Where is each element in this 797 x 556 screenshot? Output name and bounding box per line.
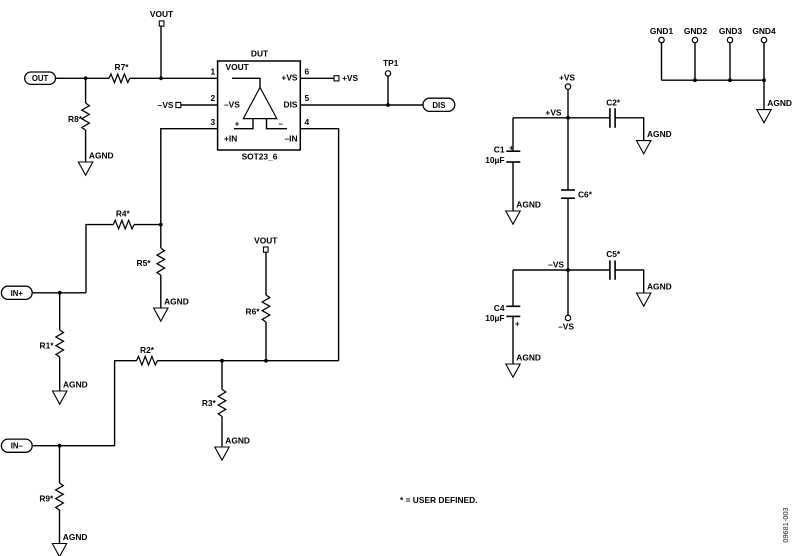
svg-text:6: 6 [304, 66, 309, 76]
op-amp triangle U1 [243, 87, 276, 118]
svg-text:GND4: GND4 [752, 26, 776, 36]
wire C2 to ground corner [615, 118, 644, 141]
svg-text:–: – [278, 119, 283, 128]
node junction +VS rail [566, 116, 570, 120]
svg-text:R9*: R9* [39, 493, 54, 503]
node junction TP1 [386, 103, 390, 107]
terminal GND1 [650, 26, 674, 80]
svg-text:+VS: +VS [281, 72, 297, 82]
svg-text:R4*: R4* [116, 208, 131, 218]
svg-text:10µF: 10µF [485, 313, 504, 323]
terminal -VS pin2 [158, 100, 181, 110]
svg-text:AGND: AGND [647, 129, 672, 139]
connector OUT [25, 72, 56, 84]
svg-text:R6*: R6* [246, 307, 261, 317]
svg-text:VOUT: VOUT [150, 9, 174, 19]
svg-text:4: 4 [304, 117, 309, 127]
ground AGND (C5) [637, 281, 672, 306]
svg-text:+: + [235, 119, 240, 128]
svg-text:OUT: OUT [32, 74, 49, 83]
terminal GND3 [719, 26, 743, 80]
resistor R5* [137, 225, 165, 308]
svg-text:–VS: –VS [548, 260, 564, 270]
resistor R1* [40, 293, 64, 391]
resistor R3* [202, 361, 226, 447]
svg-text:AGND: AGND [89, 150, 114, 160]
capacitor C2* [606, 97, 621, 127]
svg-text:GND2: GND2 [684, 26, 708, 36]
svg-text:GND3: GND3 [719, 26, 743, 36]
ground AGND (R9) [52, 532, 87, 556]
svg-text:IN+: IN+ [11, 289, 24, 298]
svg-text:C5*: C5* [606, 249, 621, 259]
terminal +VS pin6 [334, 73, 358, 83]
svg-text:AGND: AGND [225, 435, 250, 445]
wire pin 6 to +VS square [300, 77, 334, 79]
resistor R4* [113, 208, 134, 229]
op-amp +input leg [234, 119, 253, 129]
capacitor C6* [561, 118, 593, 270]
terminal +VS supply [559, 72, 575, 89]
svg-text:+VS: +VS [545, 107, 561, 117]
ground AGND (GND bus) [757, 98, 792, 123]
capacitor C1 10uF [485, 118, 520, 211]
svg-text:5: 5 [304, 93, 309, 103]
svg-text:C4: C4 [494, 303, 505, 313]
ground AGND (R1) [53, 379, 88, 404]
ground AGND (C2) [637, 129, 672, 154]
svg-text:VOUT: VOUT [254, 235, 278, 245]
terminal VOUT top [150, 9, 174, 26]
svg-text:AGND: AGND [63, 532, 88, 542]
wire pin 4 down to feedback net [300, 129, 338, 361]
svg-text:–VS: –VS [224, 100, 240, 110]
svg-text:–IN: –IN [284, 134, 297, 144]
svg-text:+IN: +IN [224, 134, 237, 144]
svg-text:AGND: AGND [164, 296, 189, 306]
resistor R2* [137, 345, 158, 365]
wire pin 3 to lower net [161, 129, 218, 225]
capacitor C4 10uF [485, 270, 520, 364]
wire GND bus [662, 79, 765, 81]
svg-text:C2*: C2* [606, 97, 621, 107]
resistor R9* [39, 446, 63, 544]
ground AGND (R8) [78, 150, 113, 175]
op-amp DUT box [218, 48, 301, 161]
resistor R7* [109, 62, 130, 83]
svg-text:3: 3 [210, 117, 215, 127]
terminal GND4 [752, 26, 776, 80]
terminal VOUT mid [254, 235, 278, 252]
ground AGND (R3) [215, 435, 250, 460]
op-amp -input leg [267, 119, 288, 129]
svg-text:R5*: R5* [137, 258, 152, 268]
svg-text:VOUT: VOUT [226, 62, 250, 72]
terminal GND2 [684, 26, 708, 80]
wire OUT to R7 [56, 77, 110, 79]
wire -VS rail left [513, 269, 610, 271]
resistor R6* [246, 252, 270, 361]
node junction R3 top [220, 359, 224, 363]
wire GND bus to ground [763, 80, 765, 109]
connector IN+ [1, 286, 32, 299]
wire R2 to pin4 corner [157, 360, 338, 362]
svg-text:* = USER DEFINED.: * = USER DEFINED. [400, 495, 478, 505]
wire pin 5 to DIS [300, 104, 423, 106]
svg-text:DIS: DIS [432, 101, 445, 110]
node junction R4-R5 [159, 223, 163, 227]
svg-text:+VS: +VS [342, 73, 358, 83]
node junction GND4 [762, 78, 766, 82]
wire IN- to corner up [32, 361, 136, 446]
ground AGND (C1) [506, 199, 541, 224]
svg-text:DIS: DIS [284, 100, 298, 110]
svg-text:IN–: IN– [11, 442, 24, 451]
node junction at R8 top [84, 76, 88, 80]
node junction -VS rail [566, 268, 570, 272]
svg-text:AGND: AGND [63, 379, 88, 389]
node junction GND2 [693, 78, 697, 82]
wire R7 to DUT pin 1 [130, 77, 218, 79]
svg-text:R3*: R3* [202, 398, 217, 408]
wire IN+ to corner [32, 292, 86, 294]
svg-text:DUT: DUT [251, 48, 269, 58]
wire C5 to ground corner [615, 270, 644, 293]
svg-text:2: 2 [210, 93, 215, 103]
svg-text:C1: C1 [494, 144, 505, 154]
terminal -VS supply [558, 270, 574, 332]
ground AGND (R5) [154, 296, 189, 321]
node junction R1 top [58, 291, 62, 295]
node junction R6 bottom [264, 359, 268, 363]
wire R4 left to corner [86, 225, 113, 293]
svg-text:AGND: AGND [516, 199, 541, 209]
svg-text:AGND: AGND [647, 281, 672, 291]
svg-text:–VS: –VS [558, 322, 574, 332]
wire +VS rail left [513, 117, 610, 119]
svg-text:R2*: R2* [140, 345, 155, 355]
svg-text:TP1: TP1 [383, 58, 399, 68]
svg-text:+VS: +VS [559, 72, 575, 82]
op-amp output wire internal [232, 78, 260, 87]
wire VOUT terminal to output net [160, 26, 162, 78]
svg-text:AGND: AGND [767, 98, 792, 108]
svg-text:AGND: AGND [516, 352, 541, 362]
svg-text:R1*: R1* [40, 340, 55, 350]
resistor R8* [68, 78, 89, 162]
svg-text:10µF: 10µF [485, 155, 504, 165]
svg-text:GND1: GND1 [650, 26, 674, 36]
ground AGND (C4) [506, 352, 541, 377]
svg-text:R7*: R7* [115, 62, 130, 72]
svg-text:09681-003: 09681-003 [781, 507, 790, 542]
svg-text:+: + [515, 320, 520, 329]
wire R4 right to junction [134, 224, 161, 226]
capacitor C5* [606, 249, 621, 280]
svg-text:1: 1 [210, 66, 215, 76]
wire +VS to rail [567, 89, 569, 118]
test point TP1 [383, 58, 399, 105]
node junction R9 top [58, 444, 62, 448]
svg-text:SOT23_6: SOT23_6 [242, 152, 278, 162]
svg-text:R8*: R8* [68, 114, 83, 124]
svg-text:C6*: C6* [578, 189, 593, 199]
svg-text:–VS: –VS [158, 100, 174, 110]
node junction GND3 [728, 78, 732, 82]
wire -VS square to pin 2 [181, 104, 218, 106]
node junction VOUT net [159, 76, 163, 80]
connector IN- [1, 439, 32, 452]
connector DIS [423, 98, 455, 111]
